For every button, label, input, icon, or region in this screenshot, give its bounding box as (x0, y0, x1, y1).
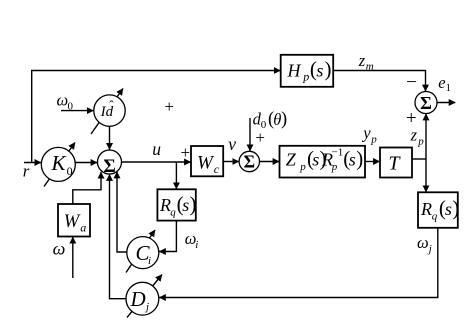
svg-text:): ) (325, 57, 332, 81)
svg-text:y: y (361, 123, 371, 142)
svg-text:Z: Z (286, 150, 297, 170)
svg-text:K: K (51, 151, 67, 175)
svg-text:s: s (182, 195, 189, 215)
svg-text:z: z (358, 51, 366, 70)
svg-text:+: + (406, 108, 417, 129)
svg-text:v: v (228, 134, 236, 154)
svg-text:i: i (195, 239, 198, 251)
svg-text:): ) (452, 196, 459, 220)
svg-text:D: D (130, 287, 146, 311)
svg-text:s: s (445, 199, 452, 219)
svg-text:R: R (420, 199, 432, 219)
svg-text:H: H (287, 61, 302, 81)
svg-text:u: u (152, 139, 161, 159)
svg-text:+: + (164, 97, 174, 116)
svg-text:1: 1 (446, 82, 452, 94)
svg-text:p: p (302, 70, 309, 84)
svg-text:p: p (370, 133, 377, 145)
svg-text:R: R (159, 195, 171, 215)
svg-text:+: + (255, 128, 265, 147)
svg-text:Σ: Σ (244, 151, 255, 171)
svg-text:): ) (281, 110, 287, 130)
svg-text:): ) (356, 146, 363, 170)
svg-text:s: s (349, 150, 356, 170)
svg-text:s: s (316, 61, 323, 81)
svg-text:+: + (181, 143, 191, 162)
svg-text:p: p (299, 161, 306, 173)
svg-text:T: T (388, 152, 401, 174)
svg-text:c: c (214, 162, 220, 176)
svg-text:): ) (190, 192, 197, 216)
svg-text:Σ: Σ (420, 93, 432, 113)
svg-text:ω: ω (57, 91, 69, 110)
svg-text:0: 0 (67, 164, 73, 178)
svg-text:r: r (23, 161, 30, 180)
svg-text:q: q (432, 211, 438, 223)
svg-text:0: 0 (68, 100, 74, 112)
svg-text:p: p (417, 135, 424, 147)
svg-text:ω: ω (417, 233, 429, 252)
svg-text:−1: −1 (332, 147, 344, 159)
svg-text:−: − (406, 72, 417, 93)
svg-text:s: s (312, 150, 319, 170)
svg-text:q: q (170, 207, 176, 219)
svg-text:ˆ: ˆ (109, 97, 114, 112)
svg-text:p: p (331, 161, 338, 173)
svg-text:W: W (64, 212, 81, 232)
svg-text:i: i (148, 255, 151, 267)
svg-text:Σ: Σ (103, 156, 115, 177)
svg-text:ω: ω (53, 239, 66, 259)
svg-text:a: a (80, 221, 86, 235)
svg-text:W: W (197, 152, 215, 173)
svg-text:m: m (366, 60, 374, 72)
